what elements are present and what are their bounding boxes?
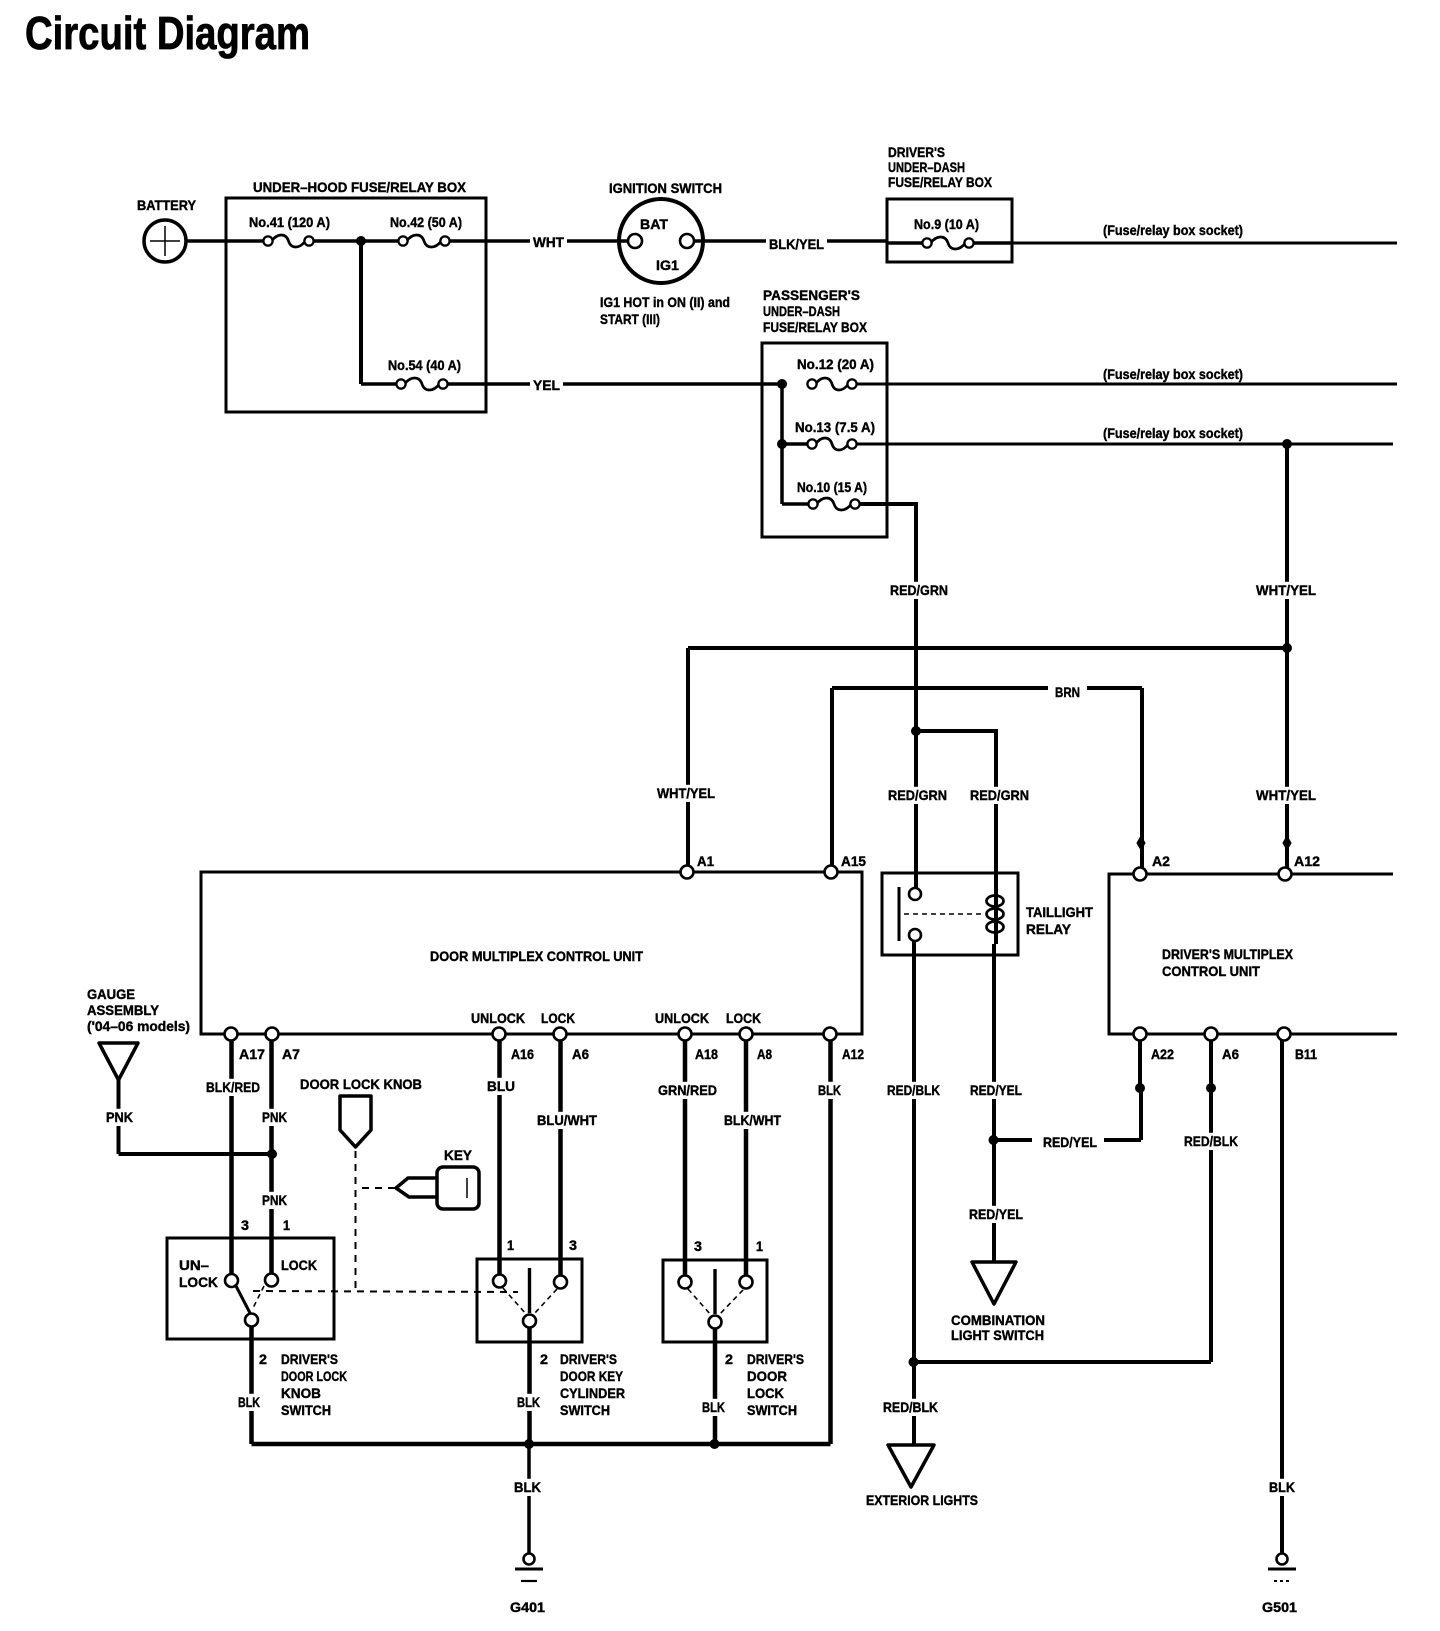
svg-text:RED/YEL: RED/YEL (1043, 1134, 1097, 1150)
svg-text:LOCK: LOCK (281, 1257, 317, 1273)
terminal unlock (225, 1274, 238, 1287)
wire label WHT/YEL (1253, 787, 1319, 804)
wire label RED/YEL (966, 1206, 1026, 1223)
pin 1 (507, 1237, 514, 1253)
svg-text:CONTROL UNIT: CONTROL UNIT (1162, 963, 1260, 979)
svg-text:3: 3 (569, 1237, 577, 1253)
svg-text:BLK/WHT: BLK/WHT (724, 1112, 781, 1128)
svg-text:DOOR LOCK KNOB: DOOR LOCK KNOB (300, 1076, 422, 1092)
driver's door lock knob switch (167, 1238, 334, 1339)
svg-text:No.12 (20 A): No.12 (20 A) (797, 356, 874, 372)
pin A6 (1205, 1028, 1240, 1063)
pin A8 (740, 1028, 773, 1063)
wire RED/GRN (860, 504, 951, 889)
node junction (989, 1135, 999, 1145)
svg-text:BLK: BLK (514, 1479, 541, 1495)
ignition switch (609, 180, 722, 283)
svg-text:DRIVER'S: DRIVER'S (281, 1351, 338, 1367)
pin 2 (725, 1351, 733, 1367)
wire to fuse/relay box socket (857, 366, 1397, 384)
svg-text:RED/BLK: RED/BLK (883, 1399, 938, 1415)
node junction (1282, 439, 1292, 449)
svg-text:UNLOCK: UNLOCK (655, 1010, 709, 1026)
svg-text:BLK/YEL: BLK/YEL (769, 236, 824, 252)
node A22 marker (1135, 1083, 1145, 1093)
svg-text:(Fuse/relay box socket): (Fuse/relay box socket) (1103, 366, 1243, 382)
pin A1 (681, 853, 715, 879)
svg-text:A17: A17 (239, 1046, 265, 1062)
wire BRN (832, 684, 1142, 868)
svg-text:A2: A2 (1152, 853, 1170, 869)
svg-text:RED/YEL: RED/YEL (970, 1082, 1022, 1098)
fuse No.13 (7.5 A) (795, 419, 875, 450)
relay contact bottom (909, 929, 921, 941)
terminal 3 (679, 1276, 692, 1289)
label driver's door lock switch (747, 1351, 804, 1418)
svg-text:A12: A12 (842, 1046, 864, 1062)
pin A16 (493, 1028, 535, 1063)
terminal common (523, 1315, 536, 1328)
wire label RED/BLK (880, 1399, 941, 1416)
svg-text:UN–: UN– (179, 1257, 209, 1273)
svg-text:No.54 (40 A): No.54 (40 A) (388, 357, 461, 373)
svg-text:A22: A22 (1151, 1046, 1174, 1062)
pin A15 (825, 853, 867, 879)
pin label UNLOCK (655, 1010, 709, 1026)
fuse No.9 (10 A) (887, 216, 1012, 249)
pin 3 (694, 1238, 702, 1254)
terminal IG1 (680, 234, 694, 248)
svg-text:YEL: YEL (533, 377, 560, 393)
pin 1 (283, 1217, 290, 1233)
pin A6 (554, 1028, 590, 1063)
svg-text:IG1: IG1 (656, 257, 679, 273)
svg-text:RED/GRN: RED/GRN (890, 582, 948, 598)
node junction (777, 379, 787, 389)
svg-text:LOCK: LOCK (541, 1010, 575, 1026)
pin 3 (241, 1217, 249, 1233)
svg-text:LIGHT SWITCH: LIGHT SWITCH (951, 1327, 1044, 1343)
wire to A1 (654, 648, 1287, 868)
node junction (267, 1149, 277, 1159)
linkage dashed (253, 1291, 518, 1292)
wire (361, 241, 397, 384)
wire RED/YEL to A22 (994, 1084, 1141, 1150)
svg-text:BLK: BLK (238, 1394, 260, 1410)
terminal 3 (554, 1276, 567, 1289)
relay coil (987, 884, 1004, 944)
svg-text:('04–06 models): ('04–06 models) (87, 1018, 190, 1034)
svg-text:1: 1 (283, 1217, 290, 1233)
title (25, 7, 310, 59)
terminal common (245, 1314, 258, 1327)
wire to fuse/relay box socket (857, 425, 1393, 444)
svg-text:IGNITION SWITCH: IGNITION SWITCH (609, 180, 722, 196)
svg-text:A6: A6 (1222, 1046, 1239, 1062)
svg-text:(Fuse/relay box socket): (Fuse/relay box socket) (1103, 425, 1243, 441)
svg-text:3: 3 (241, 1217, 249, 1233)
pin B11 (1278, 1028, 1318, 1063)
wire (186, 239, 264, 243)
wire BLK B11 (1266, 1040, 1298, 1553)
fuse No.10 (15 A) (797, 479, 867, 510)
svg-text:RED/YEL: RED/YEL (969, 1206, 1023, 1222)
svg-text:BLK: BLK (818, 1082, 841, 1098)
pin A12 (1279, 853, 1321, 881)
arrow A12 (1282, 835, 1291, 851)
svg-text:SWITCH: SWITCH (560, 1402, 610, 1418)
ground G401 (510, 1554, 545, 1616)
svg-text:LOCK: LOCK (726, 1010, 761, 1026)
switch lever (688, 1269, 743, 1315)
wire BLK/WHT A8 (721, 1040, 784, 1280)
svg-text:G401: G401 (510, 1599, 545, 1615)
wire GRN/RED A18 (655, 1040, 720, 1280)
svg-text:UNDER–DASH: UNDER–DASH (888, 159, 965, 175)
wire BLU A16 (484, 1040, 518, 1274)
svg-text:SWITCH: SWITCH (281, 1402, 331, 1418)
wire BLK A12 (815, 1040, 844, 1444)
under-hood fuse/relay box (226, 179, 486, 412)
svg-text:No.42 (50 A): No.42 (50 A) (390, 214, 462, 230)
wire YEL (448, 377, 778, 394)
wire WHT (450, 234, 628, 251)
wire BLK to G401 (511, 1444, 544, 1553)
wire ground bus (252, 1442, 831, 1447)
svg-text:DOOR LOCK: DOOR LOCK (281, 1368, 347, 1384)
driver's multiplex control unit (1109, 874, 1397, 1034)
svg-text:2: 2 (540, 1351, 548, 1367)
label driver's door key cylinder switch (560, 1351, 625, 1418)
pin 2 (540, 1351, 548, 1367)
svg-text:3: 3 (694, 1238, 702, 1254)
wire (314, 239, 399, 243)
wire label RED/GRN (885, 787, 950, 804)
svg-text:B11: B11 (1295, 1046, 1317, 1062)
svg-text:A16: A16 (511, 1046, 534, 1062)
fuse No.54 (40 A) (388, 357, 461, 390)
svg-text:WHT/YEL: WHT/YEL (1256, 582, 1316, 598)
passenger's under-dash fuse/relay box (762, 287, 887, 537)
svg-text:PNK: PNK (106, 1109, 133, 1125)
svg-text:PASSENGER'S: PASSENGER'S (763, 287, 860, 303)
node junction (777, 439, 787, 449)
svg-text:UNLOCK: UNLOCK (471, 1010, 525, 1026)
pin 2 (259, 1351, 267, 1367)
svg-text:No.13 (7.5 A): No.13 (7.5 A) (795, 419, 875, 435)
svg-text:Circuit Diagram: Circuit Diagram (25, 7, 310, 59)
svg-text:BLK: BLK (517, 1394, 540, 1410)
svg-text:No.41 (120 A): No.41 (120 A) (249, 214, 330, 230)
battery (137, 197, 197, 262)
wire PNK A7 (259, 1040, 290, 1273)
svg-text:BLK/RED: BLK/RED (206, 1079, 260, 1095)
svg-text:COMBINATION: COMBINATION (951, 1312, 1045, 1328)
wire BLK/RED A17 (203, 1040, 263, 1274)
svg-text:1: 1 (756, 1238, 763, 1254)
svg-text:A15: A15 (841, 853, 866, 869)
gauge assembly (87, 986, 190, 1080)
wire RED/GRN branch (916, 731, 1032, 897)
terminal 1 (493, 1275, 506, 1288)
door multiplex control unit (201, 872, 862, 1034)
pin A12 (824, 1028, 865, 1063)
svg-text:1: 1 (507, 1237, 514, 1253)
node junction (1282, 643, 1292, 653)
driver's door lock switch (663, 1260, 767, 1342)
svg-text:WHT/YEL: WHT/YEL (1256, 787, 1316, 803)
svg-text:RELAY: RELAY (1026, 921, 1072, 937)
svg-text:No.9 (10 A): No.9 (10 A) (914, 216, 979, 232)
wire (782, 384, 809, 504)
wire BLU/WHT A6 (534, 1040, 600, 1275)
arrow A2 (1136, 835, 1145, 851)
svg-text:BRN: BRN (1055, 684, 1080, 700)
svg-text:SWITCH: SWITCH (747, 1402, 797, 1418)
svg-text:BLK: BLK (1269, 1479, 1295, 1495)
svg-text:A6: A6 (572, 1046, 589, 1062)
pin A22 (1134, 1028, 1175, 1063)
svg-text:A12: A12 (1294, 853, 1320, 869)
relay armature (899, 887, 984, 941)
svg-text:A7: A7 (282, 1046, 300, 1062)
key (396, 1147, 479, 1209)
relay contact top (909, 888, 921, 900)
terminal BAT (628, 234, 642, 248)
svg-text:WHT: WHT (533, 234, 564, 250)
terminal lock (265, 1274, 278, 1287)
svg-text:DOOR MULTIPLEX CONTROL UNIT: DOOR MULTIPLEX CONTROL UNIT (430, 948, 643, 964)
svg-text:EXTERIOR LIGHTS: EXTERIOR LIGHTS (866, 1492, 978, 1508)
label driver's door lock knob switch (281, 1351, 347, 1418)
svg-text:G501: G501 (1262, 1599, 1297, 1615)
node junction (911, 726, 921, 736)
svg-text:A18: A18 (695, 1046, 718, 1062)
svg-text:PNK: PNK (262, 1109, 287, 1125)
node junction (710, 1439, 720, 1449)
pin label UNLOCK (471, 1010, 525, 1026)
wire BLK (514, 1327, 543, 1444)
svg-text:A1: A1 (697, 853, 714, 869)
svg-text:BAT: BAT (640, 216, 668, 232)
svg-text:START (III): START (III) (600, 311, 660, 327)
pin 1 (756, 1238, 763, 1254)
svg-text:(Fuse/relay box socket): (Fuse/relay box socket) (1103, 222, 1243, 238)
ground G501 (1262, 1554, 1297, 1616)
svg-text:DOOR KEY: DOOR KEY (560, 1368, 624, 1384)
svg-text:PNK: PNK (262, 1192, 287, 1208)
combination light switch (951, 1262, 1045, 1343)
svg-text:GRN/RED: GRN/RED (658, 1082, 717, 1098)
svg-text:UNDER–HOOD FUSE/RELAY BOX: UNDER–HOOD FUSE/RELAY BOX (253, 179, 467, 195)
wire BLK (699, 1328, 728, 1444)
node junction (524, 1439, 534, 1449)
pin label LOCK (541, 1010, 575, 1026)
svg-text:2: 2 (725, 1351, 733, 1367)
svg-text:CYLINDER: CYLINDER (560, 1385, 625, 1401)
linkage dashed (362, 1187, 396, 1189)
pin label LOCK (726, 1010, 761, 1026)
svg-text:DOOR: DOOR (747, 1368, 787, 1384)
svg-text:BLU: BLU (487, 1078, 515, 1094)
svg-text:ASSEMBLY: ASSEMBLY (87, 1002, 160, 1018)
pin A17 (225, 1028, 266, 1063)
note IG1 HOT (600, 294, 730, 327)
svg-text:DRIVER'S: DRIVER'S (560, 1351, 617, 1367)
svg-text:A8: A8 (757, 1046, 772, 1062)
pin 3 (569, 1237, 577, 1253)
wire RED/YEL (967, 944, 1025, 1261)
svg-text:WHT/YEL: WHT/YEL (657, 785, 715, 801)
wire RED/BLK (884, 941, 943, 1445)
svg-text:RED/BLK: RED/BLK (887, 1082, 940, 1098)
svg-text:LOCK: LOCK (747, 1385, 784, 1401)
svg-text:KNOB: KNOB (281, 1385, 321, 1401)
svg-text:BLK: BLK (702, 1399, 725, 1415)
wire A22 (1138, 1040, 1142, 1086)
svg-text:RED/BLK: RED/BLK (1184, 1133, 1238, 1149)
svg-text:2: 2 (259, 1351, 267, 1367)
svg-text:FUSE/RELAY BOX: FUSE/RELAY BOX (888, 174, 993, 190)
pin A2 (1134, 853, 1171, 881)
fuse No.42 (50 A) (390, 214, 462, 247)
wire RED/BLK to A6 (914, 1040, 1241, 1362)
switch lever (503, 1268, 557, 1314)
terminal 1 (740, 1276, 753, 1289)
svg-text:BLU/WHT: BLU/WHT (537, 1112, 597, 1128)
svg-text:KEY: KEY (444, 1147, 473, 1163)
node A6 marker (1206, 1083, 1216, 1093)
svg-text:No.10 (15 A): No.10 (15 A) (797, 479, 867, 495)
svg-text:BATTERY: BATTERY (137, 197, 197, 213)
wire BLK (235, 1326, 263, 1444)
taillight relay (882, 873, 1093, 955)
svg-text:GAUGE: GAUGE (87, 986, 135, 1002)
wire WHT/YEL (1253, 444, 1319, 868)
fuse No.41 (120 A) (249, 214, 330, 247)
svg-text:RED/GRN: RED/GRN (888, 787, 947, 803)
door lock knob (300, 1076, 422, 1147)
switch arm (236, 1286, 264, 1313)
terminal common (709, 1316, 722, 1329)
svg-text:RED/GRN: RED/GRN (970, 787, 1029, 803)
node junction (909, 1357, 919, 1367)
wire to fuse/relay box socket (1012, 222, 1397, 243)
svg-text:LOCK: LOCK (179, 1274, 218, 1290)
linkage dashed (355, 1151, 357, 1291)
node junction (356, 236, 366, 246)
driver's door key cylinder switch (477, 1259, 582, 1342)
pin A7 (266, 1028, 301, 1063)
svg-text:TAILLIGHT: TAILLIGHT (1026, 904, 1093, 920)
svg-text:DRIVER'S: DRIVER'S (888, 144, 945, 160)
svg-text:IG1 HOT in ON (II) and: IG1 HOT in ON (II) and (600, 294, 730, 310)
wire PNK (103, 1080, 272, 1154)
exterior lights (866, 1445, 978, 1508)
svg-text:DRIVER'S: DRIVER'S (747, 1351, 804, 1367)
driver's under-dash fuse/relay box (887, 144, 1012, 262)
wire BLK/YEL (694, 236, 888, 253)
svg-text:FUSE/RELAY BOX: FUSE/RELAY BOX (763, 319, 868, 335)
fuse No.12 (20 A) (797, 356, 874, 390)
svg-text:UNDER–DASH: UNDER–DASH (763, 303, 840, 319)
svg-text:DRIVER'S MULTIPLEX: DRIVER'S MULTIPLEX (1162, 946, 1294, 962)
pin A18 (679, 1028, 719, 1063)
